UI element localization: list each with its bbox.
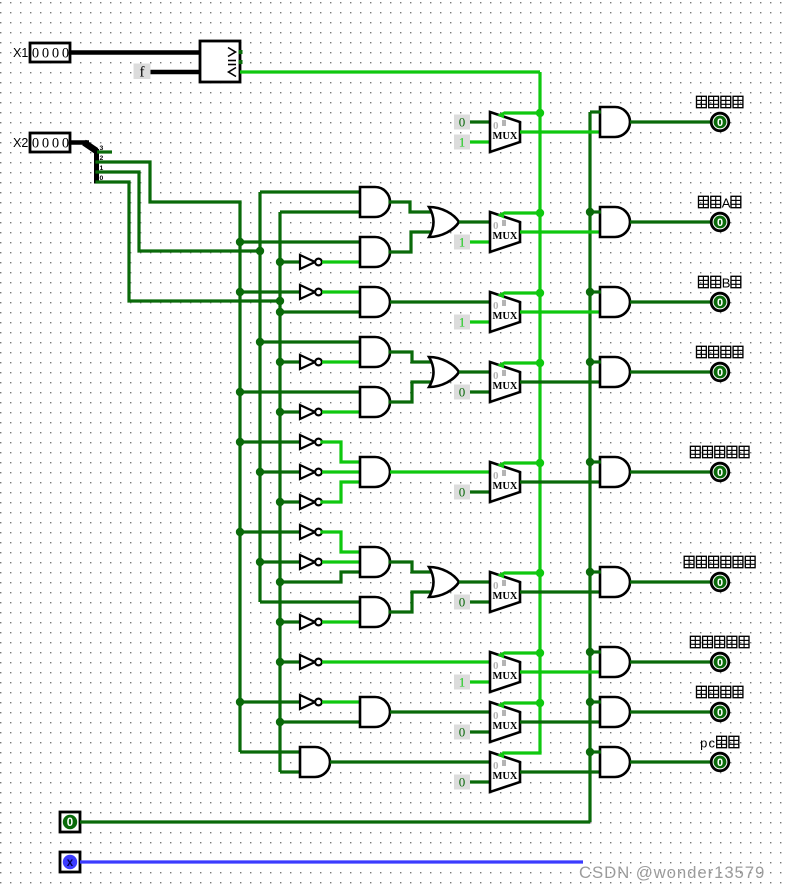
- wire rail260 end to AND8 input a: [260, 600, 361, 603]
- wire rail280 to AND7 input c: [280, 572, 361, 582]
- wire constant to MUX row F: [470, 680, 490, 683]
- svg-text:1: 1: [459, 235, 466, 250]
- wire constant to MUX row C: [470, 390, 490, 393]
- junction rail240 to AND2: [236, 238, 244, 246]
- svg-text:MUX: MUX: [493, 671, 518, 682]
- svg-text:MUX: MUX: [493, 591, 518, 602]
- junction bit0 joins rail x280: [276, 297, 284, 305]
- wire AND A2 out to OR1: [390, 232, 432, 252]
- wire rail240 to AND5 input a: [240, 390, 361, 393]
- junction rail280 to AND7: [276, 578, 284, 586]
- inverter NOT9: [300, 555, 322, 569]
- junction rail280 to NOT11: [276, 658, 284, 666]
- label row A: [699, 196, 741, 211]
- svg-text:MUX: MUX: [493, 311, 518, 322]
- AND gate A1: [360, 187, 390, 217]
- wire enable pin to rail x590: [80, 820, 590, 823]
- svg-text:1: 1: [459, 135, 466, 150]
- junction rail240 to NOT12: [236, 698, 244, 706]
- svg-text:A: A: [722, 196, 731, 211]
- junction enable rail row E: [586, 568, 594, 576]
- junction rail240 to NOT5: [236, 438, 244, 446]
- inverter NOT2: [300, 285, 322, 299]
- wire rail280 to NOT7: [280, 500, 300, 503]
- AND gate row G (output stage): [600, 697, 630, 727]
- svg-text:0: 0: [459, 725, 466, 740]
- wire AND to output pin row D: [630, 470, 712, 473]
- output pin row E: [711, 573, 729, 591]
- svg-text:X1: X1: [13, 46, 28, 60]
- wire MUX output row F: [520, 670, 600, 673]
- input pin X2 (4-bit value 0000): [30, 133, 70, 152]
- output pin row H: [711, 753, 729, 771]
- wire MUX output row C: [520, 380, 600, 383]
- wire enable rail to AND row F: [590, 650, 601, 653]
- wire rail240 to NOT12: [240, 700, 300, 703]
- wire AND to output pin row B: [630, 300, 712, 303]
- AND gate A2: [360, 237, 390, 267]
- junction rail260 to NOT6: [256, 468, 264, 476]
- junction enable rail row C: [586, 358, 594, 366]
- label row D: [690, 446, 749, 458]
- junction rail260 to AND4: [256, 338, 264, 346]
- wire splitter bit0 to rail x280: [97, 182, 280, 301]
- multiplexer MUX row E: [490, 572, 520, 613]
- wire rail260 to NOT9: [260, 560, 300, 563]
- junction select rail row G: [536, 699, 544, 707]
- junction enable rail row H: [586, 748, 594, 756]
- svg-text:0: 0: [717, 367, 723, 379]
- constant 1 for MUX row B: [454, 315, 470, 330]
- wire constant to MUX row A: [470, 240, 490, 243]
- inverter NOT8: [300, 525, 322, 539]
- wire AND to output pin row F: [630, 660, 712, 663]
- output pin row G: [711, 703, 729, 721]
- svg-text:c: c: [709, 736, 716, 751]
- wire AND E2 out to OR3: [390, 592, 432, 612]
- svg-text:0: 0: [32, 136, 39, 152]
- wire rail260 to NOT6: [260, 470, 300, 473]
- svg-text:0: 0: [42, 136, 49, 152]
- wire comparator less-than output to select rail: [240, 70, 540, 73]
- junction select rail row 0: [536, 109, 544, 117]
- wire MUX output row H: [520, 770, 600, 773]
- AND gate D1 (3-input): [360, 457, 390, 487]
- svg-text:MUX: MUX: [493, 771, 518, 782]
- AND gate row F (output stage): [600, 647, 630, 677]
- constant 1 for MUX row A: [454, 235, 470, 250]
- wire enable rail to AND row H: [590, 750, 601, 753]
- AND gate row 0 (output stage): [600, 107, 630, 137]
- splitter S1: [84, 143, 97, 184]
- constant 0 for MUX row 0 input a: [454, 115, 470, 130]
- wire select rail end to MUX row H select: [504, 751, 540, 754]
- AND gate C2: [360, 387, 390, 417]
- wire AND to output pin row E: [630, 580, 712, 583]
- wire enable rail to AND row C: [590, 360, 601, 363]
- constant 0 for MUX row E: [454, 595, 470, 610]
- junction rail280 to NOT3: [276, 358, 284, 366]
- svg-text:0: 0: [32, 46, 39, 62]
- wire constant to MUX row D: [470, 490, 490, 493]
- constant 1 for MUX row 0: [454, 135, 470, 150]
- wire AND to output pin row H: [630, 760, 712, 763]
- wire MUX output row B: [520, 310, 600, 313]
- svg-text:0: 0: [717, 657, 723, 669]
- label row F: [690, 636, 749, 648]
- wire MUX select tap row D: [504, 461, 540, 464]
- label row E: [684, 556, 755, 568]
- wire enable rail to AND row E: [590, 570, 601, 573]
- svg-text:1: 1: [459, 675, 466, 690]
- AND gate row E (output stage): [600, 567, 630, 597]
- wire AND B1 out to MUX row B: [390, 300, 490, 303]
- wire rail240 end to AND10 input a: [240, 750, 301, 753]
- input pin enable (value 0): [60, 812, 80, 832]
- wire rail240 to NOT8: [240, 530, 300, 533]
- wire MUX select tap row G: [504, 701, 540, 704]
- svg-text:0: 0: [717, 297, 723, 309]
- wire rail280 to NOT11: [280, 660, 300, 663]
- junction rail280 to AND3: [276, 308, 284, 316]
- wire MUX output row E: [520, 590, 600, 593]
- junction rail260 to NOT9: [256, 558, 264, 566]
- wire enable rail to AND row D: [590, 460, 601, 463]
- svg-text:0: 0: [717, 757, 723, 769]
- junction select rail row C: [536, 359, 544, 367]
- wire constant to MUX row E: [470, 600, 490, 603]
- svg-text:MUX: MUX: [493, 721, 518, 732]
- AND gate row H (output stage): [600, 747, 630, 777]
- svg-text:CSDN @wonder13579: CSDN @wonder13579: [579, 863, 765, 882]
- svg-text:0: 0: [52, 136, 59, 152]
- wire MUX select tap row 0: [504, 111, 540, 114]
- wire splitter bit3 stub: [97, 150, 112, 153]
- bus wire X1 to comparator: [70, 50, 200, 54]
- svg-text:p: p: [700, 736, 707, 751]
- svg-text:0: 0: [459, 595, 466, 610]
- wire constant to MUX row 0: [470, 140, 490, 143]
- svg-text:0: 0: [62, 136, 69, 152]
- AND gate E1 (3-input): [360, 547, 390, 577]
- junction rail280 to NOT7: [276, 498, 284, 506]
- wire constant0 to MUX row 0: [470, 120, 490, 123]
- wire enable rail to AND row G: [590, 700, 601, 703]
- wire AND to output pin row 0: [630, 120, 712, 123]
- AND gate row A (output stage): [600, 207, 630, 237]
- wire NOT7 out to AND6 input c: [322, 482, 361, 502]
- output pin row C: [711, 363, 729, 381]
- wire constant to MUX row H: [470, 780, 490, 783]
- wire AND A1 out to OR1: [390, 202, 432, 212]
- wire rail280 to AND9 input b: [280, 720, 361, 723]
- inverter NOT11: [300, 655, 322, 669]
- AND gate E2: [360, 597, 390, 627]
- wire NOT10 out to AND8 input b: [322, 620, 361, 623]
- wire AND to output pin row A: [630, 220, 712, 223]
- OR gate OR3: [429, 567, 459, 597]
- wire enable rail to AND row A: [590, 210, 601, 213]
- label f (tunnel): [134, 64, 151, 81]
- svg-text:0: 0: [717, 217, 723, 229]
- constant 0 for MUX row H: [454, 775, 470, 790]
- svg-text:0: 0: [717, 467, 723, 479]
- wire enable rail to AND row B: [590, 290, 601, 293]
- wire rail280 end to AND10 input b: [280, 770, 301, 773]
- svg-text:0: 0: [459, 485, 466, 500]
- wire splitter bit1 to rail x260: [97, 172, 260, 251]
- wire rail260 top to AND1 input a: [260, 190, 361, 193]
- wire MUX output row G: [520, 720, 600, 723]
- select rail x=540 (bright): [538, 72, 541, 753]
- output pin row B: [711, 293, 729, 311]
- svg-text:MUX: MUX: [493, 231, 518, 242]
- wire NOT11 out to MUX row F: [322, 660, 490, 663]
- svg-text:x: x: [67, 857, 74, 869]
- constant 0 for MUX row G: [454, 725, 470, 740]
- wire MUX output row A: [520, 230, 600, 233]
- junction enable rail row A: [586, 208, 594, 216]
- wire NOT8 out to AND7 input a: [322, 532, 361, 552]
- rail bit0 x=280: [278, 212, 281, 772]
- label row G: [697, 686, 743, 698]
- multiplexer MUX row B: [490, 292, 520, 333]
- junction select rail row E: [536, 569, 544, 577]
- wire rail280 top to AND1 input b: [280, 210, 361, 213]
- multiplexer MUX row G: [490, 702, 520, 743]
- AND gate G1: [360, 697, 390, 727]
- inverter NOT6: [300, 465, 322, 479]
- wire OR2 out to MUX row C: [459, 370, 490, 373]
- junction rail240 to NOT2: [236, 288, 244, 296]
- wire OR1 out to MUX row A: [459, 220, 490, 223]
- bus wire X2 to splitter: [70, 140, 89, 144]
- wire NOT6 out to AND6 input b: [322, 470, 361, 473]
- inverter NOT1: [300, 255, 322, 269]
- wire MUX output row 0: [520, 130, 600, 133]
- wire AND D1 out to MUX row D: [390, 470, 490, 473]
- constant 1 for MUX row F: [454, 675, 470, 690]
- multiplexer MUX row A: [490, 212, 520, 253]
- AND gate B1: [360, 287, 390, 317]
- junction select rail row D: [536, 459, 544, 467]
- inverter NOT12: [300, 695, 322, 709]
- junction rail280 to NOT1: [276, 258, 284, 266]
- wire AND C2 out to OR2: [390, 382, 432, 402]
- wire NOT1 out to AND2 input b: [322, 260, 361, 263]
- comparator U1: [200, 41, 240, 82]
- junction select rail row A: [536, 209, 544, 217]
- svg-text:0: 0: [62, 46, 69, 62]
- junction enable rail row G: [586, 698, 594, 706]
- wire constant to MUX row G: [470, 730, 490, 733]
- wire splitter bit2 to rail x240: [97, 162, 240, 202]
- AND gate row C (output stage): [600, 357, 630, 387]
- wire MUX select tap row E: [504, 571, 540, 574]
- wire rail280 to NOT3: [280, 360, 300, 363]
- junction select rail row B: [536, 289, 544, 297]
- wire AND to output pin row G: [630, 710, 712, 713]
- wire rail280 to NOT1: [280, 260, 300, 263]
- wire AND C1 out to OR2: [390, 352, 432, 362]
- label row B: [699, 276, 741, 291]
- multiplexer MUX row C: [490, 362, 520, 403]
- multiplexer MUX row H: [490, 752, 520, 793]
- wire MUX select tap row B: [504, 291, 540, 294]
- svg-text:0: 0: [52, 46, 59, 62]
- junction enable rail row D: [586, 458, 594, 466]
- wire NOT5 out to AND6 input a: [322, 442, 361, 462]
- wire MUX select tap row A: [504, 211, 540, 214]
- junction select rail row F: [536, 649, 544, 657]
- input pin unknown (value x): [60, 852, 80, 872]
- wire rail280 to NOT10: [280, 620, 300, 623]
- junction rail280 to NOT4: [276, 408, 284, 416]
- svg-text:MUX: MUX: [493, 131, 518, 142]
- OR gate OR1: [429, 207, 459, 237]
- svg-text:0: 0: [459, 115, 466, 130]
- rail bit2 x=240: [238, 202, 241, 752]
- wire MUX output row D: [520, 480, 600, 483]
- wire AND to output pin row C: [630, 370, 712, 373]
- output pin row F: [711, 653, 729, 671]
- enable rail x=590: [588, 112, 591, 822]
- OR gate OR2: [429, 357, 459, 387]
- svg-text:MUX: MUX: [493, 381, 518, 392]
- svg-text:X2: X2: [13, 136, 28, 150]
- wire enable rail to AND row 0: [590, 110, 601, 113]
- wire rail260 to AND4 input a: [260, 340, 361, 343]
- AND gate row D (output stage): [600, 457, 630, 487]
- inverter NOT4: [300, 405, 322, 419]
- wire AND G1 out to MUX row G: [390, 710, 490, 713]
- junction rail280 to AND9: [276, 718, 284, 726]
- junction bit1 joins rail x260: [256, 247, 264, 255]
- wire rail240 to NOT2: [240, 290, 300, 293]
- wire NOT9 out to AND7 input b: [322, 560, 361, 563]
- comparator equals output port: [239, 60, 243, 64]
- svg-text:0: 0: [42, 46, 49, 62]
- output pin row D: [711, 463, 729, 481]
- wire AND H1 out to MUX row H: [330, 760, 490, 763]
- wire rail280 to AND3 input b: [280, 310, 361, 313]
- inverter NOT7: [300, 495, 322, 509]
- AND gate H1: [300, 747, 330, 777]
- wire rail240 to AND2 input a: [240, 240, 361, 243]
- wire MUX select tap row F: [504, 651, 540, 654]
- rail bit1 x=260: [258, 192, 261, 602]
- junction rail240 to AND5: [236, 388, 244, 396]
- svg-text:0: 0: [459, 385, 466, 400]
- svg-text:f: f: [140, 65, 145, 81]
- svg-text:0: 0: [717, 707, 723, 719]
- constant 0 for MUX row C: [454, 385, 470, 400]
- svg-text:0: 0: [717, 577, 723, 589]
- output pin row 0: [711, 113, 729, 131]
- wire NOT3 out to AND4 input b: [322, 360, 361, 363]
- wire MUX select tap row C: [504, 361, 540, 364]
- svg-text:1: 1: [459, 315, 466, 330]
- wire NOT12 out to AND9 input a: [322, 700, 361, 703]
- wire unknown pin (floating, blue): [80, 860, 583, 863]
- junction rail240 to NOT8: [236, 528, 244, 536]
- wire constant to MUX row B: [470, 320, 490, 323]
- wire f to comparator: [151, 70, 201, 74]
- svg-text:0: 0: [717, 117, 723, 129]
- junction enable rail row B: [586, 288, 594, 296]
- wire rail280 to NOT4: [280, 410, 300, 413]
- wire rail240 to NOT5: [240, 440, 300, 443]
- multiplexer MUX row 0: [490, 112, 520, 153]
- svg-text:0: 0: [67, 817, 73, 829]
- AND gate row B (output stage): [600, 287, 630, 317]
- comparator greater-than output port: [239, 50, 243, 54]
- junction enable rail row F: [586, 648, 594, 656]
- output pin row A: [711, 213, 729, 231]
- label row H: [700, 736, 739, 751]
- inverter NOT3: [300, 355, 322, 369]
- constant 0 for MUX row D: [454, 485, 470, 500]
- label row 0: [697, 96, 743, 108]
- wire NOT2 out to AND3 input a: [322, 290, 361, 293]
- AND gate C1: [360, 337, 390, 367]
- svg-text:MUX: MUX: [493, 481, 518, 492]
- inverter NOT5: [300, 435, 322, 449]
- junction rail280 to NOT10: [276, 618, 284, 626]
- multiplexer MUX row D: [490, 462, 520, 503]
- svg-text:0: 0: [459, 775, 466, 790]
- wire NOT4 out to AND5 input b: [322, 410, 361, 413]
- wire AND E1 out to OR3: [390, 562, 432, 572]
- label row C: [697, 346, 743, 358]
- svg-text:B: B: [722, 276, 731, 291]
- multiplexer MUX row F: [490, 652, 520, 693]
- inverter NOT10: [300, 615, 322, 629]
- wire OR3 out to MUX row E: [459, 580, 490, 583]
- input pin X1 (4-bit value 0000): [30, 43, 70, 62]
